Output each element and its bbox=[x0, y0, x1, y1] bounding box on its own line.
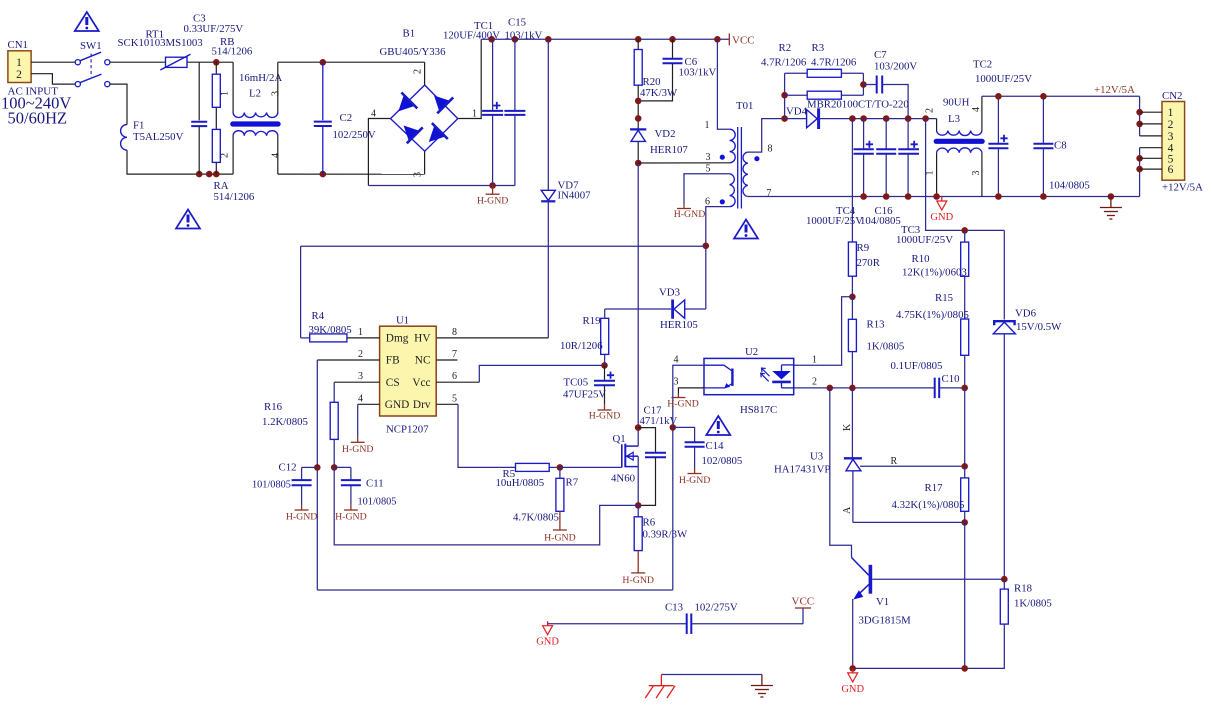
svg-text:1: 1 bbox=[472, 109, 477, 120]
node C10 right bbox=[961, 385, 968, 392]
node V1 base R18 bbox=[1001, 576, 1008, 583]
svg-text:39K/0805: 39K/0805 bbox=[309, 324, 352, 336]
node lower rail bbox=[206, 171, 213, 178]
svg-text:2: 2 bbox=[358, 349, 363, 360]
svg-text:1: 1 bbox=[1168, 107, 1174, 119]
resistor R5 bbox=[516, 463, 550, 471]
ground H-GND R7 bbox=[559, 511, 561, 530]
wire U2 pin3 stub bbox=[678, 388, 704, 394]
node T01 pin3 VD2 bbox=[635, 160, 642, 167]
pin 5 of CN2 bbox=[1140, 157, 1162, 159]
svg-text:7: 7 bbox=[767, 188, 772, 199]
node C8 bottom bbox=[1040, 193, 1047, 200]
capacitor C17 bbox=[638, 428, 655, 453]
svg-text:HER107: HER107 bbox=[650, 144, 688, 156]
wire secondary ground rail bbox=[748, 196, 1140, 198]
svg-text:K: K bbox=[842, 423, 853, 431]
svg-text:102/250V: 102/250V bbox=[333, 129, 376, 141]
wire FB bottom run bbox=[317, 589, 673, 591]
op-amp U1 controller NCP1207 bbox=[380, 326, 437, 416]
node R10 branch bbox=[922, 115, 929, 122]
svg-text:NCP1207: NCP1207 bbox=[386, 424, 429, 436]
svg-text:HV: HV bbox=[414, 333, 431, 345]
resistor R19 bbox=[604, 309, 606, 318]
wire VD7 to U1 HV bbox=[547, 201, 549, 338]
wire U2 pin4 to feedback bbox=[673, 365, 704, 590]
wire snubber right leg bbox=[862, 73, 864, 95]
diode VD3 bbox=[605, 308, 672, 310]
wire gate bbox=[560, 466, 622, 468]
svg-text:CN1: CN1 bbox=[8, 39, 28, 51]
node T01 pin1 rail bbox=[714, 36, 721, 43]
wire VD4 cathode rail bbox=[819, 118, 937, 120]
node CN2 pin5 bbox=[1136, 155, 1143, 162]
node RA bottom bbox=[213, 171, 220, 178]
svg-text:10uH/0805: 10uH/0805 bbox=[496, 477, 545, 489]
svg-text:FB: FB bbox=[386, 355, 400, 367]
svg-text:514/1206: 514/1206 bbox=[212, 46, 253, 58]
resistor R2 bbox=[785, 72, 808, 74]
node R20 top bbox=[635, 36, 642, 43]
wire U3 anode to R17 bottom bbox=[853, 521, 965, 523]
svg-text:MBR20100CT/TO-220: MBR20100CT/TO-220 bbox=[807, 99, 909, 111]
svg-text:H-GND: H-GND bbox=[589, 411, 621, 422]
svg-text:2: 2 bbox=[812, 377, 817, 388]
capacitor C6 bbox=[672, 39, 674, 58]
capacitor C8 bbox=[1042, 96, 1044, 143]
wire U1 pin2 FB loop bbox=[317, 359, 379, 361]
svg-text:R2: R2 bbox=[779, 42, 792, 54]
svg-text:15V/0.5W: 15V/0.5W bbox=[1016, 321, 1062, 333]
svg-text:2: 2 bbox=[925, 108, 936, 113]
resistor R17 bbox=[964, 466, 966, 478]
shunt regulator U3 bbox=[851, 388, 853, 458]
svg-text:H-GND: H-GND bbox=[544, 533, 576, 544]
svg-text:GND: GND bbox=[385, 399, 409, 411]
wire chassis to earth bbox=[661, 674, 762, 676]
capacitor C3 bbox=[198, 62, 200, 120]
wire R10 feed down bbox=[926, 119, 1005, 231]
svg-text:U2: U2 bbox=[745, 346, 758, 358]
ground H-GND C11 bbox=[350, 505, 352, 511]
wire RT1 to node bbox=[187, 61, 233, 63]
svg-text:4: 4 bbox=[371, 109, 376, 120]
ground GND C13 bbox=[547, 621, 549, 626]
svg-text:1000UF/25V: 1000UF/25V bbox=[896, 234, 953, 246]
node R13 bottom bbox=[849, 385, 856, 392]
U2 light arrows bbox=[762, 368, 770, 376]
svg-text:3: 3 bbox=[706, 152, 711, 163]
wire U1 pin6 Vcc bbox=[436, 381, 479, 383]
svg-text:IN4007: IN4007 bbox=[558, 190, 592, 202]
svg-text:1000UF/25V: 1000UF/25V bbox=[806, 215, 863, 227]
svg-text:GND: GND bbox=[536, 637, 559, 648]
wire bridge pin1 to top rail bbox=[458, 39, 481, 118]
ground H-GND C14 bbox=[694, 468, 696, 474]
wire bridge pin2 stub bbox=[424, 62, 426, 85]
wire VD2 anode down to Q1 drain bbox=[637, 163, 639, 428]
capacitor TC4 bbox=[863, 119, 865, 150]
thermistor RT1 bbox=[166, 57, 188, 67]
svg-text:5: 5 bbox=[452, 393, 457, 404]
svg-text:R7: R7 bbox=[566, 477, 579, 489]
wire opto pin1 to R9 R13 node bbox=[794, 297, 853, 365]
svg-text:C7: C7 bbox=[874, 49, 887, 61]
node R9 R13 junction bbox=[849, 294, 856, 301]
capacitor C16 bbox=[885, 119, 887, 150]
node TC3 top bbox=[905, 115, 912, 122]
svg-text:GND: GND bbox=[930, 212, 953, 223]
node T01 pin6 feedback bbox=[703, 243, 710, 250]
resistor R6 bbox=[637, 505, 639, 516]
svg-text:VD3: VD3 bbox=[659, 287, 680, 299]
svg-text:R: R bbox=[891, 456, 898, 467]
node C7 left bbox=[860, 81, 867, 88]
warning triangle near U2 bbox=[706, 416, 730, 435]
wire U3 ref to R17 top bbox=[860, 465, 965, 467]
node V1 emitter ground bbox=[849, 665, 856, 672]
svg-text:SW1: SW1 bbox=[80, 40, 102, 52]
node R17 bottom bbox=[961, 519, 968, 526]
wire DC minus rail bbox=[368, 185, 515, 187]
svg-text:2: 2 bbox=[1168, 119, 1174, 131]
node CN2 pin1 bbox=[1136, 109, 1143, 116]
svg-text:H-GND: H-GND bbox=[286, 512, 318, 523]
node CN2 pin6 bbox=[1136, 166, 1143, 173]
svg-text:1: 1 bbox=[220, 91, 231, 96]
node Q1 source R6 bbox=[635, 502, 642, 509]
svg-text:VD4: VD4 bbox=[786, 106, 808, 118]
svg-text:1: 1 bbox=[358, 327, 363, 338]
svg-text:4: 4 bbox=[971, 107, 982, 112]
node VD2 cathode bbox=[635, 115, 642, 122]
wire CN2 upper bus bbox=[1139, 96, 1141, 136]
svg-text:0.1UF/0805: 0.1UF/0805 bbox=[891, 360, 943, 372]
power port VCC bottom bbox=[802, 608, 804, 624]
ground GND output bbox=[941, 197, 943, 202]
svg-text:R18: R18 bbox=[1014, 583, 1032, 595]
svg-text:270R: 270R bbox=[857, 257, 881, 269]
node R9 top bbox=[849, 115, 856, 122]
svg-text:HS817C: HS817C bbox=[740, 404, 777, 416]
node C6 top bbox=[669, 36, 676, 43]
T01 secondary winding bbox=[743, 152, 748, 196]
capacitor C14 bbox=[673, 427, 695, 442]
resistor RB bbox=[215, 62, 217, 74]
resistor R3 bbox=[785, 94, 808, 96]
svg-text:A: A bbox=[842, 506, 853, 514]
wire top DC rail bbox=[481, 38, 729, 40]
ground GND V1 bbox=[852, 668, 854, 673]
resistor R20 bbox=[637, 39, 639, 49]
wire Q1 source bbox=[637, 456, 639, 505]
node R10 top rail bbox=[961, 227, 968, 234]
capacitor C13 bbox=[686, 613, 688, 634]
node CN2 pin2 bbox=[1136, 121, 1143, 128]
resistor R4 bbox=[300, 246, 302, 338]
node C8 top bbox=[1040, 93, 1047, 100]
bridge diode D4 bottom-right bbox=[429, 126, 445, 142]
ground H-GND U1 bbox=[357, 437, 359, 442]
U2 phototransistor bbox=[704, 365, 732, 370]
ground H-GND R6 bbox=[637, 551, 639, 573]
wire T01 pin5 to H-GND bbox=[684, 174, 730, 204]
svg-text:2: 2 bbox=[220, 153, 231, 158]
wire CN1 pin1 to SW1 bbox=[31, 61, 75, 63]
svg-text:Drv: Drv bbox=[413, 399, 431, 411]
resistor R10 bbox=[964, 230, 966, 242]
svg-text:Vcc: Vcc bbox=[412, 377, 430, 389]
diode VD7 bbox=[547, 39, 549, 190]
svg-text:3: 3 bbox=[358, 371, 363, 382]
bridge diode D1 top-left bbox=[398, 95, 414, 111]
svg-text:C8: C8 bbox=[1054, 140, 1067, 152]
node TC4 top bbox=[860, 115, 867, 122]
svg-text:H-GND: H-GND bbox=[477, 196, 509, 207]
wire U1 pin7 stub bbox=[436, 359, 457, 361]
warning triangle below T01 bbox=[734, 220, 758, 239]
svg-text:12K(1%)/0603: 12K(1%)/0603 bbox=[902, 267, 967, 279]
wire SW1 to RT1 bbox=[110, 61, 165, 63]
svg-text:4.7R/1206: 4.7R/1206 bbox=[761, 57, 807, 69]
svg-text:H-GND: H-GND bbox=[335, 512, 367, 523]
svg-text:H-GND: H-GND bbox=[342, 444, 374, 455]
wire L2 pin4 rail to bridge bbox=[278, 173, 425, 175]
svg-text:102/275V: 102/275V bbox=[695, 602, 738, 614]
svg-text:TC05: TC05 bbox=[564, 377, 589, 389]
svg-text:2: 2 bbox=[413, 69, 424, 74]
transistor V1 bbox=[852, 558, 869, 576]
svg-text:R17: R17 bbox=[925, 482, 944, 494]
node R20 C6 junction bbox=[635, 98, 642, 105]
node TC3 bottom bbox=[905, 193, 912, 200]
wire T01 pin3 bbox=[638, 162, 729, 164]
svg-text:90UH: 90UH bbox=[943, 97, 970, 109]
wire V1 emitter down bbox=[852, 599, 854, 668]
node C16 bottom bbox=[883, 193, 890, 200]
svg-text:GBU405/Y336: GBU405/Y336 bbox=[380, 46, 447, 58]
capacitor C12 bbox=[301, 467, 303, 480]
pin 1 of CN2 bbox=[1140, 111, 1162, 113]
node C2 bottom bbox=[320, 171, 327, 178]
svg-text:R16: R16 bbox=[264, 401, 283, 413]
chassis ground bbox=[660, 675, 662, 686]
wire CN1 pin2 to SW1 bbox=[31, 74, 75, 84]
svg-text:CS: CS bbox=[386, 377, 400, 389]
wire bridge pin4 to DC minus bbox=[368, 119, 390, 186]
svg-text:1K/0805: 1K/0805 bbox=[1014, 598, 1052, 610]
svg-text:U3: U3 bbox=[810, 451, 823, 463]
node VD7 top bbox=[545, 36, 552, 43]
wire T01 pin6 down bbox=[706, 207, 730, 309]
capacitor C11 bbox=[350, 467, 352, 480]
svg-text:4.7K/0805: 4.7K/0805 bbox=[513, 512, 559, 524]
svg-text:1: 1 bbox=[812, 355, 817, 366]
node TC1 top bbox=[488, 36, 495, 43]
fuse F1 bbox=[121, 125, 127, 151]
svg-text:47UF25V: 47UF25V bbox=[563, 389, 606, 401]
earth ground bottom bbox=[761, 675, 763, 686]
phase dot T01 aux bbox=[720, 199, 725, 204]
node R2 R3 mid bbox=[781, 92, 788, 99]
svg-text:C10: C10 bbox=[942, 373, 960, 385]
svg-text:HA17431VP: HA17431VP bbox=[774, 464, 830, 476]
diode VD2 bbox=[630, 128, 646, 130]
svg-text:T5AL250V: T5AL250V bbox=[133, 131, 184, 143]
resistor R9 bbox=[851, 119, 853, 242]
svg-text:7: 7 bbox=[452, 349, 457, 360]
svg-text:L3: L3 bbox=[948, 113, 960, 125]
svg-text:8: 8 bbox=[452, 327, 457, 338]
node Q1 drain C17 bbox=[635, 424, 642, 431]
pin 2 of CN2 bbox=[1140, 123, 1162, 125]
svg-text:R13: R13 bbox=[867, 319, 885, 331]
node TC4 bottom bbox=[860, 193, 867, 200]
svg-text:R19: R19 bbox=[583, 315, 601, 327]
node L3 pin1 GND bbox=[933, 193, 940, 200]
node ground rail mid bbox=[961, 665, 968, 672]
svg-text:4: 4 bbox=[674, 355, 679, 366]
svg-text:C2: C2 bbox=[340, 112, 353, 124]
svg-text:SCK10103MS1003: SCK10103MS1003 bbox=[118, 37, 203, 49]
svg-text:+12V/5A: +12V/5A bbox=[1094, 84, 1135, 96]
wire T01 pin8 to VD4 bbox=[748, 119, 807, 153]
svg-text:3: 3 bbox=[674, 377, 679, 388]
svg-text:NC: NC bbox=[415, 355, 431, 367]
wire snubber left leg bbox=[784, 73, 786, 118]
zener diode VD6 bbox=[1003, 230, 1005, 319]
wire F1 to lower rail bbox=[127, 150, 233, 174]
svg-text:10R/1206: 10R/1206 bbox=[560, 340, 603, 352]
svg-text:8: 8 bbox=[768, 144, 773, 155]
svg-text:1: 1 bbox=[16, 57, 22, 69]
node FB C12 junction bbox=[314, 464, 321, 471]
svg-text:R6: R6 bbox=[643, 517, 656, 529]
wire L2 pin3 to bridge top rail bbox=[278, 61, 425, 63]
svg-text:F1: F1 bbox=[133, 120, 144, 132]
node R2 R3 left bbox=[781, 115, 788, 122]
svg-text:R10: R10 bbox=[912, 253, 930, 265]
svg-text:3: 3 bbox=[971, 171, 982, 176]
wire +12V output rail bbox=[982, 95, 1140, 97]
connector CN1 bbox=[8, 51, 31, 83]
svg-text:104/0805: 104/0805 bbox=[1049, 180, 1090, 192]
capacitor TC05 bbox=[604, 365, 606, 380]
svg-text:5: 5 bbox=[706, 164, 711, 175]
svg-text:101/0805: 101/0805 bbox=[358, 497, 397, 508]
wire C12 hook bbox=[302, 466, 318, 468]
resistor R15 bbox=[961, 319, 969, 355]
wire V1 base to R18 bbox=[872, 578, 1004, 580]
power port VCC top bbox=[728, 34, 730, 46]
svg-text:50/60HZ: 50/60HZ bbox=[8, 109, 68, 128]
svg-text:1000UF/25V: 1000UF/25V bbox=[975, 73, 1032, 85]
wire C13 row bbox=[548, 623, 687, 625]
wire current sense to FB ground bbox=[334, 467, 638, 545]
capacitor TC3 bbox=[907, 119, 909, 150]
svg-text:4: 4 bbox=[271, 153, 282, 158]
svg-text:T01: T01 bbox=[736, 100, 753, 112]
capacitor C2 bbox=[322, 62, 324, 120]
wire Q1 drain bbox=[637, 428, 639, 447]
pin 6 of CN2 bbox=[1140, 168, 1162, 170]
phase dot T01 secondary bbox=[754, 156, 759, 161]
svg-text:1: 1 bbox=[925, 171, 936, 176]
svg-text:Dmg: Dmg bbox=[386, 333, 409, 345]
svg-text:Q1: Q1 bbox=[613, 433, 626, 445]
ground H-GND T01 pin5 bbox=[683, 204, 685, 209]
svg-text:H-GND: H-GND bbox=[667, 399, 699, 410]
svg-text:R9: R9 bbox=[857, 242, 870, 254]
diode VD4 bbox=[807, 110, 818, 128]
svg-text:120UF/400V: 120UF/400V bbox=[443, 30, 500, 42]
ground H-GND TC1 bbox=[492, 186, 494, 195]
svg-text:VD2: VD2 bbox=[655, 128, 676, 140]
svg-text:B1: B1 bbox=[403, 28, 416, 40]
resistor R7 bbox=[559, 467, 561, 478]
ground H-GND C12 bbox=[301, 505, 303, 511]
node R5 R7 bbox=[557, 464, 564, 471]
svg-text:H-GND: H-GND bbox=[622, 575, 654, 586]
svg-text:3: 3 bbox=[1168, 131, 1174, 143]
svg-text:L2: L2 bbox=[249, 88, 261, 100]
svg-text:VD6: VD6 bbox=[1015, 308, 1037, 320]
earth ground CN2 bbox=[1110, 197, 1112, 208]
optocoupler U2 bbox=[704, 358, 794, 394]
node C16 top bbox=[883, 115, 890, 122]
svg-text:3: 3 bbox=[413, 172, 424, 177]
svg-text:1: 1 bbox=[705, 120, 710, 131]
node TC2 bottom bbox=[995, 193, 1002, 200]
svg-text:C14: C14 bbox=[706, 440, 725, 452]
U2 LED bbox=[772, 371, 791, 379]
node V1 collector branch bbox=[827, 385, 834, 392]
svg-text:103/200V: 103/200V bbox=[874, 61, 917, 73]
svg-text:2: 2 bbox=[16, 69, 22, 81]
svg-text:VCC: VCC bbox=[792, 596, 815, 608]
node C3 bottom bbox=[196, 171, 203, 178]
svg-text:6: 6 bbox=[1168, 164, 1174, 176]
node earth junction bbox=[1108, 193, 1115, 200]
svg-text:C12: C12 bbox=[279, 462, 297, 474]
svg-text:C15: C15 bbox=[508, 17, 526, 29]
resistor R16 bbox=[334, 381, 379, 383]
svg-text:3: 3 bbox=[271, 91, 282, 96]
resistor RA bbox=[212, 129, 220, 162]
node TC05 R19 bbox=[601, 362, 608, 369]
svg-text:R4: R4 bbox=[312, 310, 325, 322]
wire feedback row bbox=[794, 387, 935, 389]
wire SW1 lower to F1 bbox=[110, 84, 127, 124]
pin 4 of CN2 bbox=[1140, 147, 1162, 149]
wire feedback top bbox=[301, 245, 706, 247]
svg-text:0.39R/3W: 0.39R/3W bbox=[643, 529, 688, 541]
svg-text:HER105: HER105 bbox=[660, 319, 698, 331]
svg-text:VCC: VCC bbox=[732, 35, 755, 47]
svg-text:0.33UF/275V: 0.33UF/275V bbox=[184, 23, 244, 35]
svg-text:+12V/5A: +12V/5A bbox=[1162, 182, 1203, 194]
svg-text:V1: V1 bbox=[876, 596, 889, 608]
svg-text:TC2: TC2 bbox=[973, 59, 992, 71]
svg-text:4.7R/1206: 4.7R/1206 bbox=[811, 57, 857, 69]
transistor Q1 MOSFET bbox=[621, 444, 623, 467]
node U2 pin4 C14 bbox=[670, 424, 677, 431]
svg-text:6: 6 bbox=[705, 197, 710, 208]
svg-text:C13: C13 bbox=[665, 602, 683, 614]
node TC1 bottom H-GND bbox=[489, 182, 496, 189]
svg-text:514/1206: 514/1206 bbox=[214, 191, 255, 203]
svg-text:3DG1815M: 3DG1815M bbox=[859, 615, 912, 627]
